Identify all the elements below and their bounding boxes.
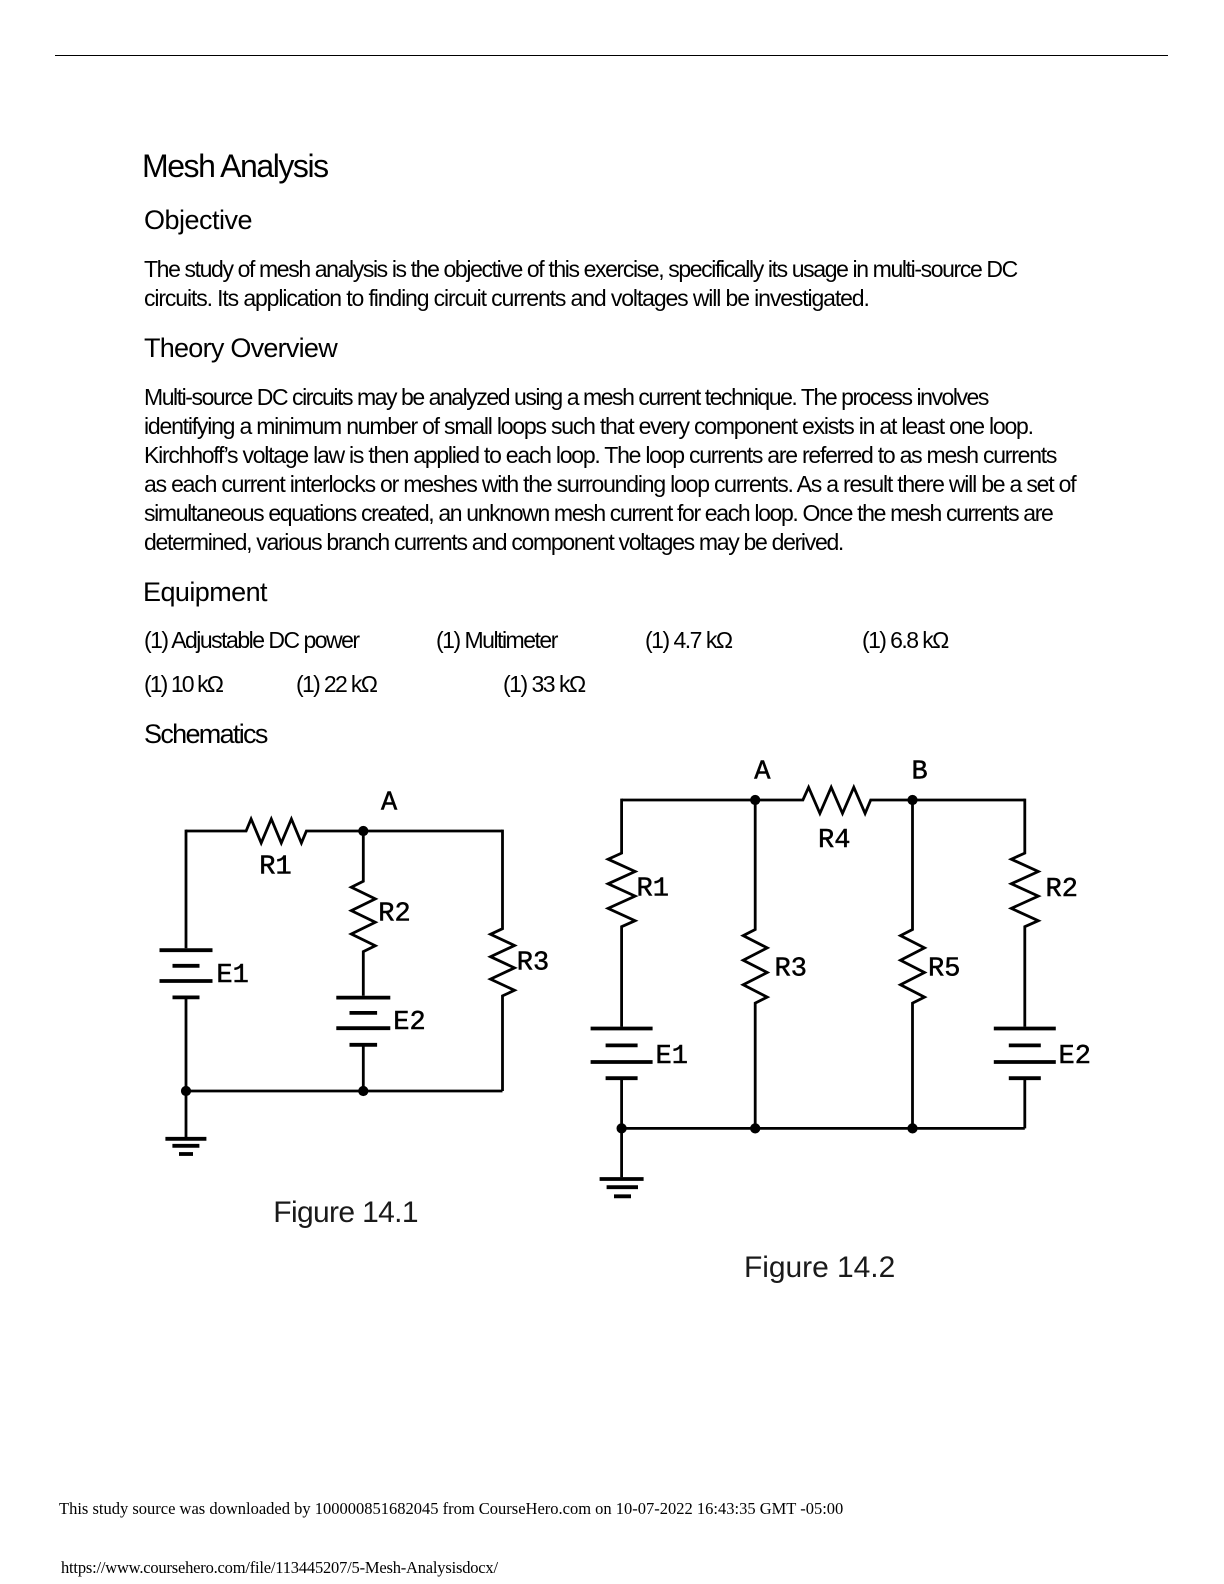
svg-text:R5: R5 <box>928 955 960 985</box>
svg-text:R4: R4 <box>818 826 850 856</box>
svg-text:B: B <box>912 758 928 788</box>
svg-text:R1: R1 <box>259 853 291 883</box>
svg-text:R3: R3 <box>775 955 807 985</box>
svg-text:R1: R1 <box>637 875 669 905</box>
svg-text:E1: E1 <box>656 1042 688 1072</box>
svg-text:R2: R2 <box>378 900 410 930</box>
svg-text:R3: R3 <box>517 949 549 979</box>
svg-text:A: A <box>754 758 771 788</box>
svg-text:E1: E1 <box>216 961 248 991</box>
svg-text:A: A <box>381 789 398 819</box>
svg-text:E2: E2 <box>393 1008 425 1038</box>
svg-text:R2: R2 <box>1046 875 1078 905</box>
svg-text:E2: E2 <box>1059 1042 1091 1072</box>
